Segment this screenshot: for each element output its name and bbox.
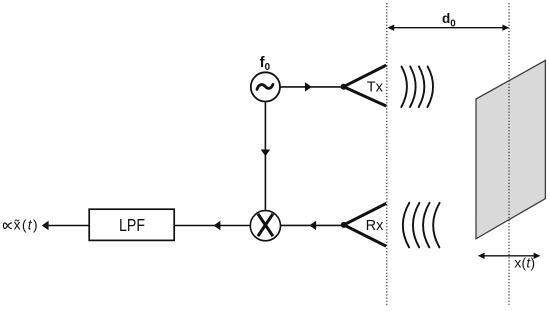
svg-text:Tx: Tx <box>367 80 384 96</box>
d0 dimension arrow <box>387 25 509 31</box>
LPF block <box>89 209 174 240</box>
antenna Tx <box>341 65 387 106</box>
dotted reference line left <box>386 3 388 306</box>
svg-text:Rx: Rx <box>366 218 384 234</box>
dotted reference line right <box>508 3 510 306</box>
oscillator U1 <box>251 72 280 101</box>
svg-text:LPF: LPF <box>119 215 145 235</box>
wire oscillator to Tx antenna <box>280 86 344 88</box>
wire mixer to LPF <box>174 225 250 227</box>
Rx received waves <box>403 203 440 248</box>
arrowhead down on vertical wire <box>261 150 270 157</box>
wire oscillator to mixer <box>264 101 266 211</box>
svg-text:x̃(t): x̃(t) <box>14 218 39 233</box>
oscillator sine symbol <box>257 84 273 89</box>
arrowhead left on output wire <box>42 221 49 230</box>
wire Rx antenna to mixer <box>281 224 344 226</box>
arrowhead left on Rx wire <box>309 221 316 230</box>
arrowhead right on Tx wire <box>305 82 312 91</box>
wire LPF to output <box>48 225 89 227</box>
arrowhead left on mixer-LPF wire <box>214 221 221 230</box>
x(t) dimension arrow <box>478 253 541 259</box>
svg-text:x(t): x(t) <box>514 256 535 271</box>
wall target panel <box>476 60 545 238</box>
antenna Rx <box>341 203 386 246</box>
Tx radiated waves <box>401 66 433 107</box>
mixer X symbol <box>258 214 273 236</box>
mixer M1 <box>250 211 280 241</box>
output label proportional-to symbol <box>3 223 11 229</box>
